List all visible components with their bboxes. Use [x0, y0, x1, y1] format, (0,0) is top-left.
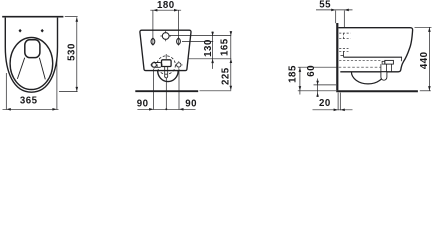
hidden fixing lower dashes — [339, 48, 348, 51]
90 arrow right — [179, 108, 184, 111]
fixing hole left axis — [152, 38, 154, 46]
180 dim extension left — [152, 10, 154, 38]
440 top ext line — [415, 26, 432, 28]
365 arrow right — [52, 108, 57, 111]
svg-text:55: 55 — [319, 0, 331, 10]
left bolt circle — [152, 63, 156, 67]
drain level ext line — [188, 58, 231, 60]
pipe assembly left edge — [380, 64, 382, 72]
svg-text:530: 530 — [66, 43, 77, 61]
rim dashed line — [339, 60, 380, 62]
185 arrow top — [299, 67, 302, 72]
floor ext line right — [420, 90, 431, 92]
right bolt crosshair — [175, 61, 183, 69]
bolt ext line right — [178, 69, 180, 110]
svg-text:20: 20 — [319, 98, 331, 109]
funnel line left — [17, 58, 24, 79]
fixing hole right — [177, 38, 181, 45]
outlet axis dashed — [339, 66, 381, 68]
530 dim extension top — [65, 16, 78, 18]
outlet pipe upper — [386, 64, 391, 72]
drain pipe right edge — [167, 67, 169, 77]
365 dim extension right — [56, 57, 58, 110]
centre dot — [165, 108, 167, 110]
floor ext line right — [200, 90, 232, 92]
60 ext line — [314, 84, 337, 86]
svg-text:225: 225 — [221, 67, 232, 85]
365 dim extension left — [5, 73, 7, 110]
130 arrow bottom — [211, 59, 214, 63]
centre ext line — [165, 78, 167, 110]
20 ext line left — [337, 93, 339, 111]
inlet elbow box — [385, 60, 394, 64]
inlet ext line right — [170, 35, 232, 37]
drain pipe bottom — [165, 76, 168, 78]
530 arrow top — [76, 17, 79, 22]
180 arrow left — [153, 9, 158, 12]
60 arrow top — [316, 81, 319, 85]
130 arrow top — [211, 32, 214, 36]
trap semicircle — [158, 71, 179, 82]
165 arrow top — [230, 31, 233, 35]
hole ext line right — [182, 40, 213, 42]
180 dimension line — [150, 9, 181, 11]
seat step left — [341, 55, 344, 57]
inner opening — [25, 40, 40, 58]
185 dimension line — [299, 67, 301, 94]
fixing mark right — [41, 29, 44, 33]
55 dimension line — [316, 9, 353, 11]
right bolt circle — [177, 63, 181, 67]
440 arrow bottom — [428, 86, 431, 91]
185 arrow bottom — [299, 86, 302, 91]
20 arrow right — [340, 109, 345, 112]
left slot capsule — [151, 63, 162, 68]
svg-text:365: 365 — [20, 95, 38, 106]
seat line — [344, 56, 403, 58]
drain dashed circle — [157, 56, 175, 74]
530 dim extension bottom — [59, 91, 78, 93]
funnel line right — [39, 58, 45, 80]
225 arrow bottom — [230, 86, 233, 91]
outlet pipe lower — [381, 72, 387, 80]
floor ext line left — [298, 90, 336, 92]
inlet circle — [162, 33, 169, 40]
440 dimension line — [428, 27, 430, 90]
svg-text:130: 130 — [203, 39, 214, 57]
seat ring ellipse — [10, 38, 53, 90]
fixing hole left — [151, 38, 155, 45]
floor line front — [135, 90, 198, 92]
body profile top and front — [339, 28, 413, 72]
165 arrow bottom — [230, 59, 233, 63]
left bolt crosshair — [150, 61, 158, 69]
wall line — [336, 23, 338, 90]
svg-text:165: 165 — [219, 38, 230, 56]
svg-text:60: 60 — [306, 65, 317, 77]
530 dimension line — [76, 17, 78, 91]
fixing mark left — [19, 29, 22, 33]
55 dim ext left — [335, 11, 337, 24]
svg-text:180: 180 — [157, 0, 175, 11]
flush pipe edge — [342, 51, 344, 55]
165 dimension line — [230, 31, 232, 90]
bowl outer outline — [5, 18, 57, 93]
20 arrow left — [334, 109, 339, 112]
bolt ext line left — [153, 69, 155, 110]
180 dim extension right — [178, 10, 180, 38]
130 dimension line — [212, 32, 214, 69]
rim front tick — [400, 57, 402, 61]
365 arrow left — [6, 108, 11, 111]
90 arrow left — [149, 108, 154, 111]
530 arrow bottom — [76, 87, 79, 92]
55 dim ext right — [343, 11, 345, 28]
55 arrow right — [344, 9, 349, 12]
trap bulge arc — [351, 72, 384, 84]
hidden fixing upper dashes — [339, 33, 350, 39]
drain pipe left edge — [164, 67, 166, 77]
floor line side — [336, 90, 418, 92]
inlet elbow step — [382, 61, 385, 64]
outlet axis ext left — [298, 66, 338, 68]
svg-text:90: 90 — [137, 99, 149, 110]
inlet crosshair — [160, 31, 171, 42]
svg-text:185: 185 — [287, 65, 298, 83]
55 arrow left — [331, 9, 336, 12]
fixing hole right axis — [178, 38, 180, 46]
60 arrow bottom — [316, 93, 319, 97]
180 arrow right — [174, 9, 179, 12]
svg-text:440: 440 — [419, 51, 430, 69]
wall top line — [2, 16, 63, 18]
60 dimension line — [317, 79, 319, 98]
440 arrow top — [428, 27, 431, 32]
drain axis tick — [165, 54, 167, 59]
20 ext line right — [339, 93, 341, 111]
90-90 dimension line — [137, 108, 195, 110]
svg-text:90: 90 — [185, 99, 197, 110]
outlet box — [162, 60, 172, 67]
365 dimension line — [3, 108, 59, 110]
body outline trapezoid — [140, 30, 191, 70]
20 dimension line — [313, 109, 353, 111]
